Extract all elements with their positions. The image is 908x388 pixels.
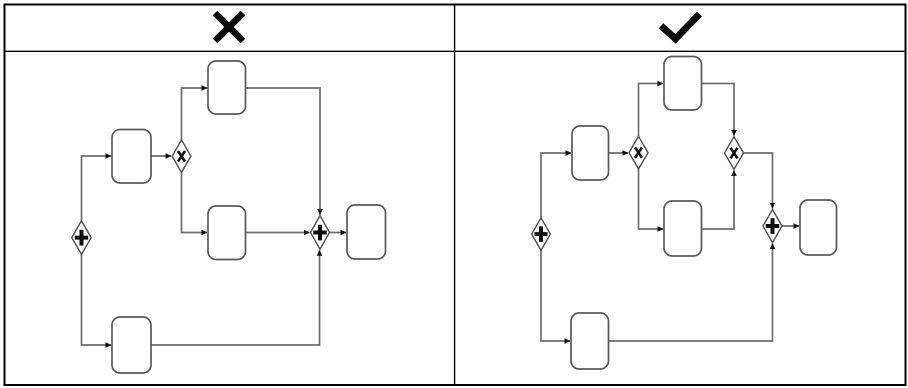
wire: exclusive gateway RG2 top to task RT2 — [639, 84, 664, 137]
wire: task LT5 to parallel gateway LG3 bottom — [152, 250, 320, 345]
parallel gateway RG4 (join, plus) — [763, 210, 782, 243]
wire: task LT2 to parallel gateway LG3 top — [246, 88, 321, 215]
wire: task RT1 to exclusive gateway RG2 — [609, 152, 629, 154]
wire: task LT3 to parallel gateway LG3 left — [246, 232, 310, 234]
wire: exclusive gateway LG2 bottom to task LT3 — [182, 173, 208, 233]
wire: parallel gateway LG1 bottom to task LT5 — [82, 255, 112, 346]
wire: exclusive gateway RG3 to parallel gateway RG4 top — [744, 153, 773, 209]
parallel gateway LG3 (join, plus) — [311, 216, 330, 250]
wire: parallel gateway RG4 to task RT4 — [782, 225, 799, 227]
check mark (correct label) — [661, 14, 700, 39]
wire: task RT2 to exclusive gateway RG3 top — [702, 84, 735, 136]
wire: task LT1 to exclusive gateway LG2 — [152, 155, 172, 157]
wire: parallel gateway RG1 bottom to task RT5 — [541, 250, 570, 341]
exclusive gateway RG3 (X join) — [725, 137, 744, 170]
task LT1 (left) — [112, 130, 151, 184]
wire: parallel gateway RG1 top to task RT1 — [541, 153, 571, 218]
task LT5 (bottom) — [112, 317, 151, 373]
wire: task RT5 to parallel gateway RG4 bottom — [609, 244, 773, 341]
wire: task RT3 to exclusive gateway RG3 bottom — [702, 170, 735, 229]
wire: exclusive gateway LG2 top to task LT2 — [182, 88, 208, 140]
task RT1 (left) — [572, 126, 609, 180]
task RT2 (top) — [664, 57, 702, 111]
task RT4 (right) — [800, 200, 837, 255]
wire: parallel gateway LG1 top to task LT1 — [82, 156, 112, 221]
task LT3 (middle) — [208, 206, 246, 260]
task LT2 (top) — [208, 61, 246, 114]
exclusive gateway LG2 (X) — [172, 140, 191, 173]
wire: exclusive gateway RG2 bottom to task RT3 — [639, 169, 664, 229]
table column divider — [454, 4, 456, 386]
table header row divider — [4, 50, 906, 52]
task RT3 (middle) — [664, 201, 702, 256]
parallel gateway RG1 (start split, plus) — [532, 218, 551, 251]
cross mark (wrong label) — [215, 13, 243, 41]
parallel gateway LG1 (start split, plus) — [72, 221, 91, 255]
task RT5 (bottom) — [571, 313, 609, 369]
wire: parallel gateway LG3 to task LT4 — [330, 232, 347, 234]
task LT4 (right) — [347, 205, 386, 259]
exclusive gateway RG2 (X split) — [629, 136, 648, 169]
